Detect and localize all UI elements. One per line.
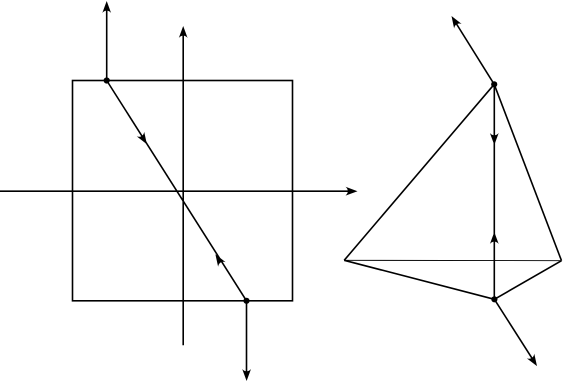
point on bottom edge of square (243, 298, 249, 304)
point on top edge of square (104, 77, 110, 83)
arrowhead on diagonal (pointing down-right) (137, 132, 151, 147)
arrow leaving top vertex toward upper-left (448, 14, 494, 85)
quadrilateral edge: left vertex to bottom vertex (344, 260, 494, 299)
top vertex point (491, 81, 497, 87)
downward arrow from bottom point (242, 301, 251, 381)
vertical flow segment from top vertex to bottom vertex (493, 84, 495, 299)
upward arrow from top-left point (102, 1, 111, 81)
arrowhead on diagonal (pointing up-left) (212, 252, 226, 267)
quadrilateral edge: top vertex to left vertex (344, 84, 494, 260)
arrowhead on vertical segment (pointing down) (490, 133, 499, 145)
thin chord from left vertex to right vertex (344, 259, 561, 261)
diagonal trajectory segment (107, 81, 247, 301)
square (unit square outline) (73, 81, 293, 301)
quadrilateral edge: top vertex to right vertex (494, 84, 561, 260)
arrow leaving bottom vertex toward lower-right (494, 299, 540, 368)
arrowhead on vertical segment (pointing up) (490, 232, 499, 244)
quadrilateral edge: right vertex to bottom vertex (494, 261, 561, 300)
bottom vertex point (491, 296, 497, 302)
vertical axis (179, 26, 188, 345)
horizontal axis (0, 187, 358, 196)
